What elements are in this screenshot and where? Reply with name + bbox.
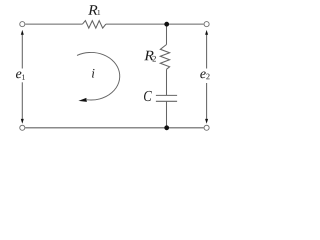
e2 arrow shaft lower [206,83,208,120]
wire R2 to C [166,69,168,95]
current loop arrowhead [78,98,86,102]
label e2 [200,71,209,79]
terminal top-right [204,22,209,27]
label C [144,91,152,101]
label R1 [88,5,100,15]
e1 arrowhead up [21,30,24,35]
label R2 [144,51,156,62]
current loop arc i [77,52,120,100]
resistor R1 [83,21,106,29]
terminal top-left [20,22,25,27]
label i [92,69,94,78]
node bottom junction [164,125,169,130]
resistor R2 [160,45,169,70]
capacitor C top plate [156,94,177,96]
terminal bottom-left [20,125,25,130]
capacitor C bottom plate [156,100,177,102]
wire top-right segment [106,23,204,25]
e2 arrowhead up [205,30,208,35]
e1 arrowhead down [21,119,24,124]
node top junction [164,22,169,27]
e2 arrowhead down [205,119,208,124]
wire bottom rail [25,127,204,129]
wire top-left segment [25,23,82,25]
label e1 [16,71,25,79]
terminal bottom-right [204,125,209,130]
wire node to R2 [166,24,168,44]
e1 arrow shaft lower [21,82,23,119]
e2 arrow shaft upper [206,33,208,69]
wire C to bottom node [166,101,168,128]
e1 arrow shaft upper [21,33,23,69]
